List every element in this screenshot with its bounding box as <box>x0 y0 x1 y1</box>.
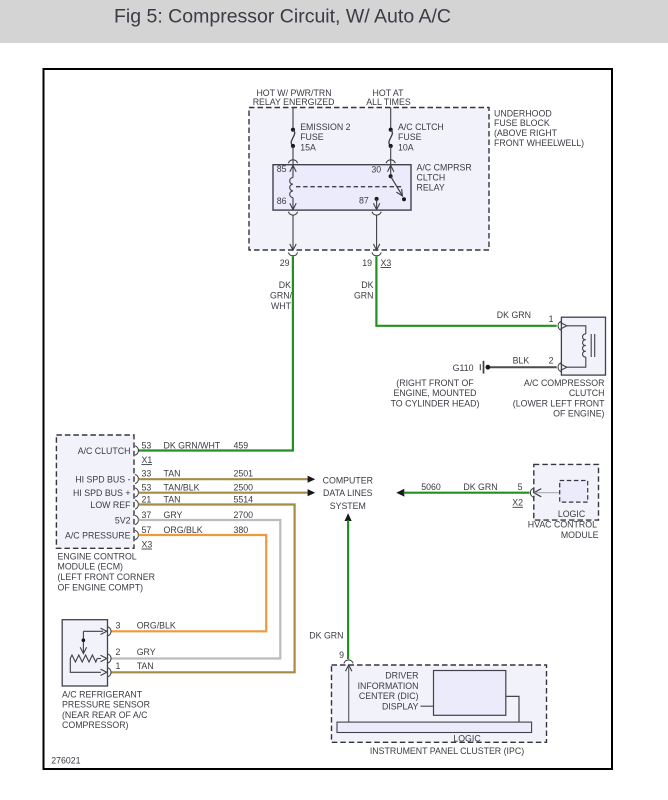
svg-text:(LEFT FRONT CORNER: (LEFT FRONT CORNER <box>58 572 155 582</box>
connector arc ECM pin 33 <box>135 474 138 483</box>
node HOT W/ PWR/TRN RELAY ENERGIZED <box>253 88 335 107</box>
wire fuse to relay pin 85 <box>292 146 294 165</box>
svg-text:DRIVER: DRIVER <box>385 671 418 681</box>
svg-text:5060: 5060 <box>421 482 441 492</box>
diagram frame <box>44 69 613 769</box>
svg-text:CLUTCH: CLUTCH <box>569 388 605 398</box>
svg-text:2: 2 <box>549 355 554 365</box>
title bar <box>0 0 668 43</box>
relay coil arrow down <box>290 203 296 209</box>
svg-text:21: 21 <box>142 494 152 504</box>
label DK GRN (vertical run) <box>354 280 374 301</box>
svg-text:(RIGHT FRONT OF: (RIGHT FRONT OF <box>396 378 474 388</box>
label ORG/BLK 380 <box>164 525 249 535</box>
sensor junction dot <box>82 638 86 642</box>
DIC display box <box>434 671 506 716</box>
connector arc below pin 29 <box>288 252 297 255</box>
svg-text:RELAY ENERGIZED: RELAY ENERGIZED <box>253 97 335 107</box>
wire TAN/BLK 2500 to computer data lines <box>139 489 316 496</box>
connector arc clutch pin 2 <box>558 363 561 372</box>
clutch pin 1 arrow <box>561 323 567 329</box>
svg-text:2: 2 <box>116 647 121 657</box>
wire DK GRN from DIC pin 9 to computer data lines <box>345 513 352 659</box>
svg-text:OF ENGINE COMPT): OF ENGINE COMPT) <box>58 582 144 592</box>
svg-text:A/C COMPRESSOR: A/C COMPRESSOR <box>524 378 605 388</box>
label TAN 2501 <box>164 469 254 479</box>
svg-text:MODULE (ECM): MODULE (ECM) <box>58 562 124 572</box>
svg-text:A/C REFRIGERANT: A/C REFRIGERANT <box>62 690 143 700</box>
svg-text:SYSTEM: SYSTEM <box>330 501 366 511</box>
svg-text:FRONT WHEELWELL): FRONT WHEELWELL) <box>494 138 584 148</box>
svg-text:HVAC CONTROL: HVAC CONTROL <box>528 520 597 530</box>
svg-text:CENTER (DIC): CENTER (DIC) <box>359 691 419 701</box>
HVAC logic box <box>558 481 588 520</box>
relay A/C CMPRSR CLTCH RELAY box <box>273 163 472 210</box>
svg-text:DK GRN: DK GRN <box>497 310 531 320</box>
relay switch blade <box>391 176 403 196</box>
svg-text:ALL TIMES: ALL TIMES <box>366 97 411 107</box>
label TAN/BLK 2500 <box>164 482 254 492</box>
connector X2 label <box>512 498 523 508</box>
connector arc ECM pin 57 <box>135 530 138 539</box>
svg-text:GRY: GRY <box>137 647 156 657</box>
svg-text:15A: 15A <box>300 142 316 152</box>
svg-text:GRN/: GRN/ <box>270 290 293 300</box>
connector arc below relay pin 86 <box>288 212 297 215</box>
svg-text:DK: DK <box>361 280 373 290</box>
wire TAN 2501 to computer data lines <box>139 476 316 483</box>
relay pin 87 arrow down <box>373 203 379 209</box>
svg-text:MODULE: MODULE <box>561 530 599 540</box>
svg-text:RELAY: RELAY <box>417 182 445 192</box>
svg-text:1: 1 <box>116 661 121 671</box>
sensor resistor element <box>70 655 107 662</box>
connector arc above relay pin 30 <box>386 160 395 163</box>
underhood fuse block (dashed box) <box>249 108 584 251</box>
svg-text:X1: X1 <box>142 455 153 465</box>
svg-text:DK GRN: DK GRN <box>463 482 497 492</box>
svg-text:ORG/BLK: ORG/BLK <box>137 621 176 631</box>
IPC pin 9 arrow up <box>346 665 352 671</box>
svg-text:DK: DK <box>279 280 291 290</box>
wire DK GRN 5060 from HVAC to computer data lines <box>396 489 529 497</box>
svg-text:TAN/BLK: TAN/BLK <box>164 482 200 492</box>
svg-text:(ABOVE RIGHT: (ABOVE RIGHT <box>494 128 558 138</box>
svg-text:COMPUTER: COMPUTER <box>323 475 373 485</box>
fuse EMISSION 2 FUSE 15A <box>291 122 351 152</box>
svg-text:INSTRUMENT PANEL CLUSTER (IPC): INSTRUMENT PANEL CLUSTER (IPC) <box>370 746 524 756</box>
svg-text:3: 3 <box>116 621 121 631</box>
svg-text:Fig 5: Compressor Circuit, W/: Fig 5: Compressor Circuit, W/ Auto A/C <box>114 6 451 28</box>
relay switch pin 30 arrow up <box>388 165 394 171</box>
wire DK GRN/WHT from pin 29 to ECM pin 53 <box>139 257 293 451</box>
svg-text:9: 9 <box>339 650 344 660</box>
connector arc HVAC pin 5 <box>530 488 533 497</box>
IPC logic bar <box>337 722 532 743</box>
svg-text:380: 380 <box>234 525 249 535</box>
connector arc ECM pin 37 <box>135 515 138 524</box>
connector arc sensor pin 1 <box>108 668 111 677</box>
svg-text:LOGIC: LOGIC <box>558 509 586 519</box>
fuse A/C CLTCH FUSE 10A <box>389 122 444 152</box>
connector arc above relay pin 85 <box>288 160 297 163</box>
svg-text:1: 1 <box>549 314 554 324</box>
wire HVAC pin to logic <box>535 492 560 494</box>
svg-text:5514: 5514 <box>234 494 254 504</box>
svg-text:29: 29 <box>280 258 290 268</box>
svg-text:GRY: GRY <box>164 510 183 520</box>
svg-text:A/C CLTCH: A/C CLTCH <box>398 122 444 132</box>
wire IPC pin 9 to logic bar <box>348 666 350 722</box>
svg-text:A/C CLUTCH: A/C CLUTCH <box>78 446 131 456</box>
svg-text:53: 53 <box>142 482 152 492</box>
svg-text:X2: X2 <box>512 498 523 508</box>
connector arc sensor pin 3 <box>108 627 111 636</box>
svg-text:19: 19 <box>362 258 372 268</box>
svg-text:G110: G110 <box>453 363 474 373</box>
wire feed to emission fuse <box>292 108 294 130</box>
wire relay 87 to fuse block edge <box>373 215 379 251</box>
svg-text:10A: 10A <box>398 142 414 152</box>
ECM box (dashed) <box>56 435 155 592</box>
relay switch pivot dot <box>389 174 393 178</box>
svg-text:5V2: 5V2 <box>115 516 131 526</box>
svg-text:87: 87 <box>359 195 369 205</box>
svg-text:ORG/BLK: ORG/BLK <box>164 525 203 535</box>
wire ORG/BLK 380 to pressure sensor pin 3 <box>111 535 266 631</box>
clutch coil <box>567 326 595 367</box>
node COMPUTER DATA LINES SYSTEM <box>323 475 373 511</box>
svg-text:276021: 276021 <box>51 756 80 766</box>
svg-text:WHT: WHT <box>271 301 292 311</box>
svg-text:53: 53 <box>142 441 152 451</box>
svg-text:ENGINE, MOUNTED: ENGINE, MOUNTED <box>393 388 476 398</box>
svg-text:FUSE: FUSE <box>300 132 324 142</box>
wire display label to display box <box>421 705 434 707</box>
svg-text:EMISSION 2: EMISSION 2 <box>300 122 350 132</box>
clutch pin 2 arrow <box>561 364 567 370</box>
svg-text:5: 5 <box>518 482 523 492</box>
svg-text:DISPLAY: DISPLAY <box>382 702 419 712</box>
wire BLK clutch pin 2 to ground <box>490 366 557 368</box>
svg-text:LOW REF: LOW REF <box>90 500 131 510</box>
relay switch contact dot <box>402 197 406 201</box>
relay pin 87 stub <box>376 199 378 210</box>
svg-text:FUSE: FUSE <box>398 132 422 142</box>
A/C compressor clutch box <box>513 317 606 418</box>
label DK GRN/WHT (vertical run) <box>270 280 293 311</box>
sensor pin 1 leg <box>70 659 107 676</box>
ground G110 <box>391 361 491 409</box>
relay pin 87 dot <box>375 197 379 201</box>
label GRY 2700 <box>164 510 254 520</box>
connector arc above IPC pin 9 <box>344 660 353 663</box>
wire fuse to relay pin 30 <box>390 146 392 165</box>
wire TAN 5514 to pressure sensor pin 1 <box>111 505 295 673</box>
svg-text:33: 33 <box>142 469 152 479</box>
relay coil <box>290 165 293 209</box>
svg-text:HI SPD BUS +: HI SPD BUS + <box>73 488 130 498</box>
svg-text:PRESSURE SENSOR: PRESSURE SENSOR <box>62 700 150 710</box>
svg-text:DK GRN/WHT: DK GRN/WHT <box>164 441 221 451</box>
sensor wiper feed <box>80 628 107 653</box>
connector arc sensor pin 2 <box>108 654 111 663</box>
A/C refrigerant pressure sensor box <box>62 620 150 730</box>
connector arc ECM pin 53 (bus+) <box>135 488 138 497</box>
svg-text:2501: 2501 <box>234 469 254 479</box>
svg-text:2500: 2500 <box>234 482 254 492</box>
svg-text:DATA LINES: DATA LINES <box>323 488 373 498</box>
connector X3 label (ECM) <box>142 539 153 549</box>
svg-text:TAN: TAN <box>164 494 181 504</box>
svg-text:2700: 2700 <box>234 510 254 520</box>
svg-text:TAN: TAN <box>164 469 181 479</box>
svg-text:INFORMATION: INFORMATION <box>358 681 419 691</box>
svg-text:A/C PRESSURE: A/C PRESSURE <box>65 531 131 541</box>
svg-text:OF ENGINE): OF ENGINE) <box>553 408 604 418</box>
connector arc ECM pin 53 (A/C clutch) <box>135 446 138 455</box>
HVAC control module box (dashed) <box>528 464 599 540</box>
label TAN 5514 <box>164 494 254 504</box>
svg-text:DK GRN: DK GRN <box>309 631 343 641</box>
svg-text:UNDERHOOD: UNDERHOOD <box>494 108 552 118</box>
svg-text:86: 86 <box>277 196 287 206</box>
connector arc below relay pin 87 <box>372 212 381 215</box>
svg-text:LOGIC: LOGIC <box>453 733 481 743</box>
wire display box to logic bar <box>506 696 519 722</box>
svg-text:459: 459 <box>234 441 249 451</box>
instrument panel cluster box (dashed) <box>332 665 547 756</box>
node HOT AT ALL TIMES <box>366 88 411 107</box>
svg-text:85: 85 <box>277 164 287 174</box>
svg-text:CLTCH: CLTCH <box>417 173 446 183</box>
wire DK GRN from pin 19 to clutch pin 1 <box>376 257 556 326</box>
relay coil-switch dashed link <box>296 186 404 188</box>
svg-text:(NEAR REAR OF A/C: (NEAR REAR OF A/C <box>62 710 148 720</box>
relay coil arrow up <box>290 165 296 171</box>
svg-text:HI SPD BUS -: HI SPD BUS - <box>75 475 130 485</box>
connector X3 label <box>381 258 392 268</box>
svg-text:COMPRESSOR): COMPRESSOR) <box>62 720 129 730</box>
svg-text:57: 57 <box>142 525 152 535</box>
relay switch common stub <box>390 165 392 175</box>
connector X1 label <box>142 455 153 465</box>
wire relay 86 to fuse block edge <box>290 215 296 251</box>
wire feed to A/C clutch fuse <box>390 108 392 130</box>
svg-text:37: 37 <box>142 510 152 520</box>
HVAC pin 5 arrow <box>534 489 542 497</box>
svg-text:(LOWER LEFT FRONT: (LOWER LEFT FRONT <box>513 398 605 408</box>
svg-text:FUSE BLOCK: FUSE BLOCK <box>494 118 550 128</box>
node DRIVER INFORMATION CENTER (DIC) DISPLAY <box>358 671 419 712</box>
svg-text:X3: X3 <box>142 539 153 549</box>
svg-text:30: 30 <box>371 164 381 174</box>
svg-text:GRN: GRN <box>354 290 374 300</box>
svg-text:TO CYLINDER HEAD): TO CYLINDER HEAD) <box>391 398 480 408</box>
connector arc ECM pin 21 <box>135 500 138 509</box>
svg-text:BLK: BLK <box>513 355 530 365</box>
svg-text:TAN: TAN <box>137 661 154 671</box>
connector arc below pin 19 <box>372 252 381 255</box>
svg-text:X3: X3 <box>381 258 392 268</box>
svg-text:A/C CMPRSR: A/C CMPRSR <box>417 163 472 173</box>
connector arc clutch pin 1 <box>558 321 561 330</box>
wire GRY 2700 to pressure sensor pin 2 <box>111 520 280 659</box>
svg-text:ENGINE CONTROL: ENGINE CONTROL <box>58 551 137 561</box>
